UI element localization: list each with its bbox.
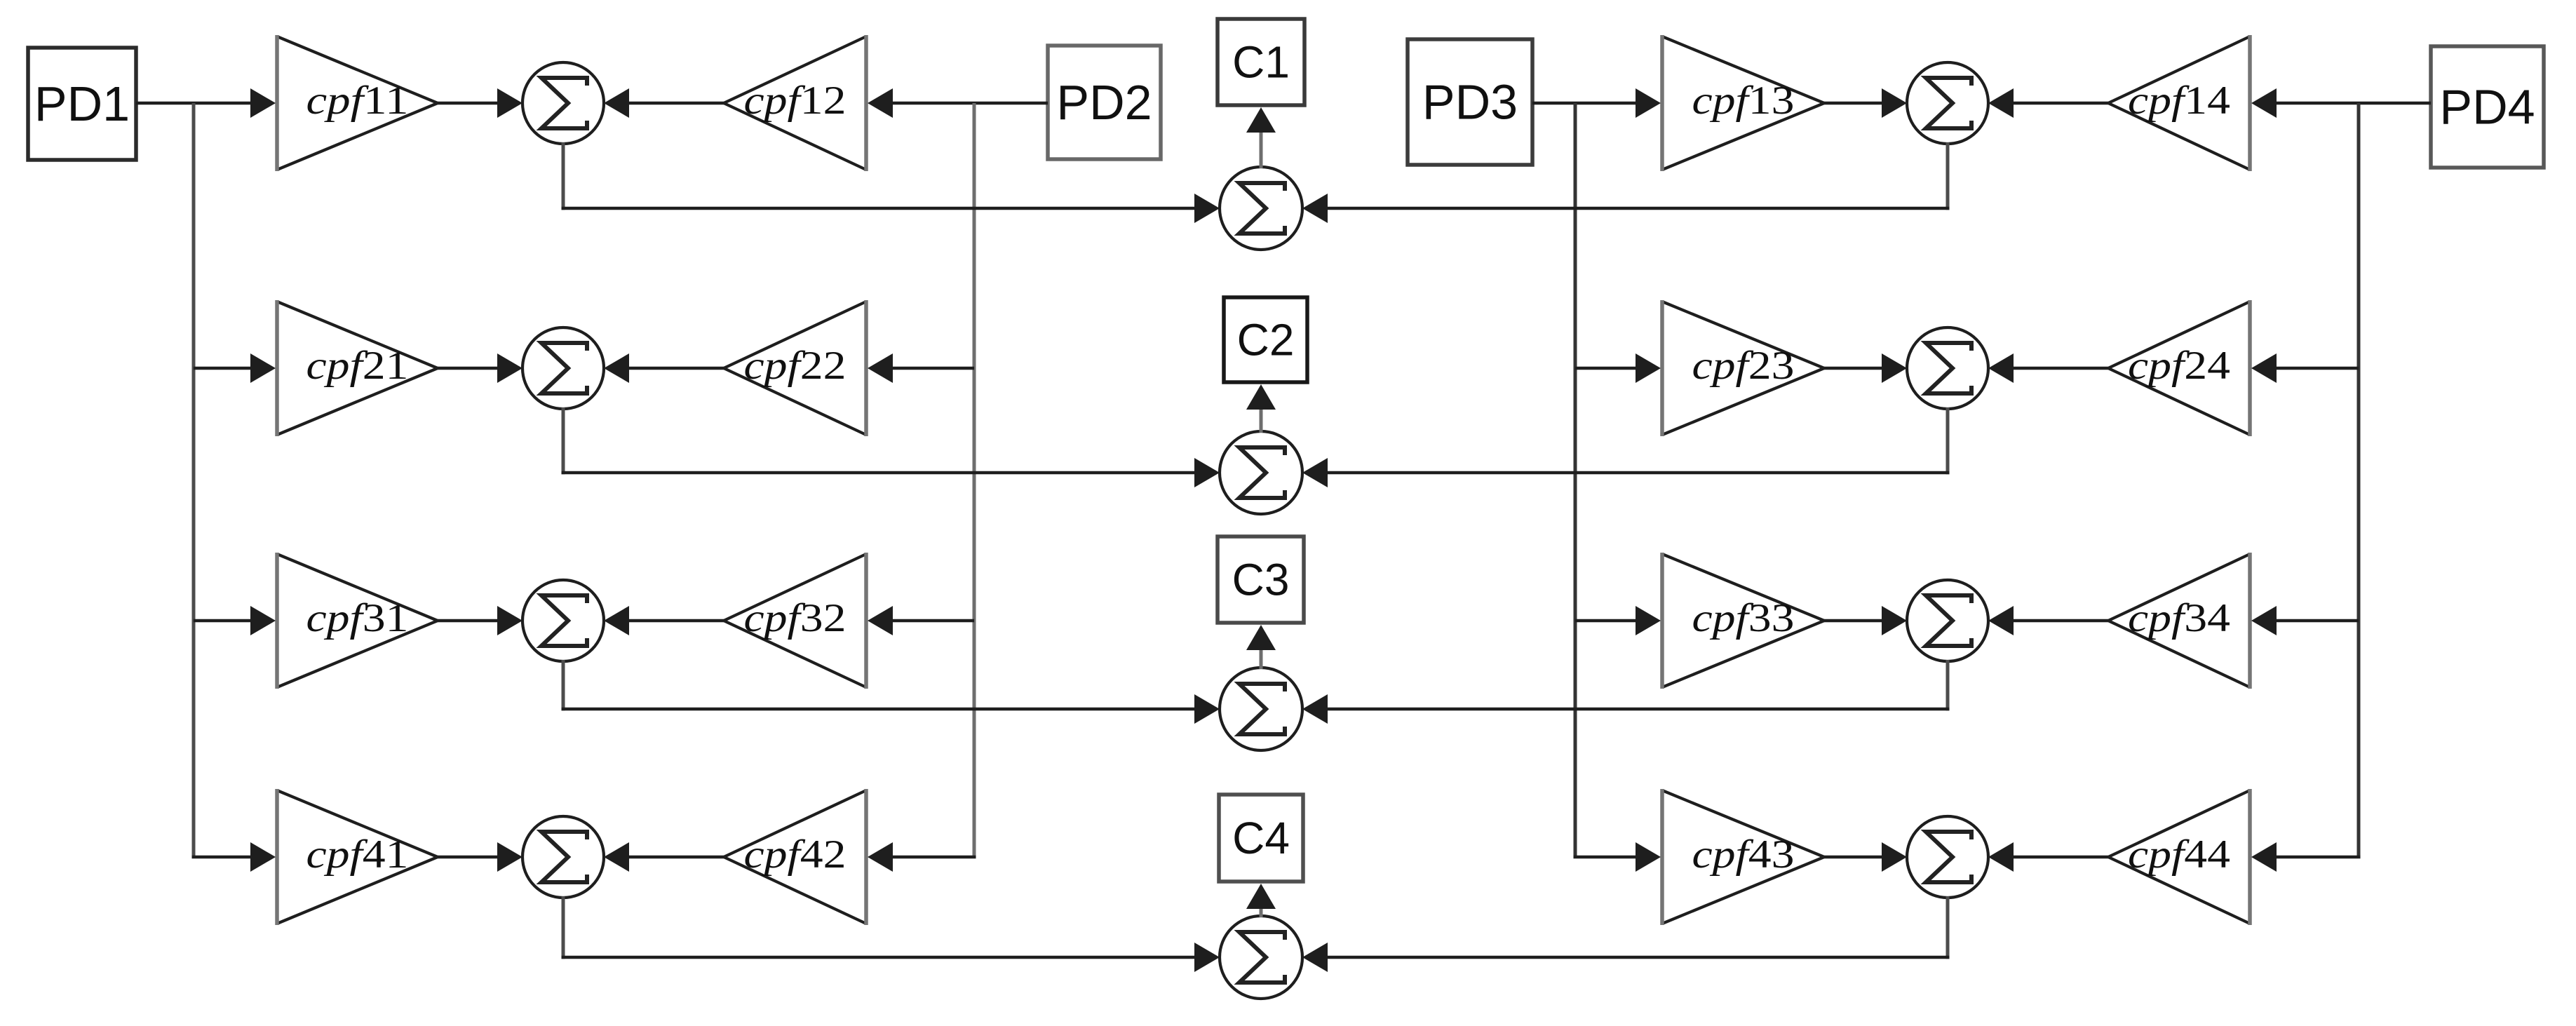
svg-text:C1: C1 (1232, 37, 1290, 88)
wire PD1 branch to cpf21 (194, 353, 276, 383)
wire PD2 branch to cpf32 (868, 606, 974, 635)
block PD4 (2431, 46, 2544, 168)
summer S4L (left sum row 4) (522, 816, 604, 898)
gain block cpf23 (1662, 300, 1824, 436)
block PD2 (1048, 46, 1161, 159)
gain block cpf13 (1662, 35, 1824, 171)
wire PD3 feeder vertical (1574, 103, 1577, 857)
gain block cpf12 (724, 35, 866, 171)
wire cpf44 to right sum (1988, 842, 2108, 872)
wire left sum row 1 to central sum 1 (562, 142, 1220, 223)
gain block cpf31 (277, 553, 438, 689)
svg-text:cpf41: cpf41 (306, 832, 409, 877)
summer S1L (left sum row 1) (522, 62, 604, 144)
svg-text:cpf43: cpf43 (1692, 832, 1795, 877)
wire central sum 4 to C4 (1246, 884, 1276, 917)
gain block cpf34 (2108, 553, 2250, 689)
svg-text:cpf44: cpf44 (2128, 832, 2230, 877)
gain block cpf22 (724, 300, 866, 436)
summer S4R (right sum row 4) (1907, 816, 1988, 898)
wire PD3 branch to cpf43 (1574, 842, 1661, 872)
svg-text:cpf31: cpf31 (306, 596, 409, 640)
gain block cpf42 (724, 789, 866, 925)
wire cpf43 to right sum (1824, 842, 1907, 872)
svg-text:PD3: PD3 (1422, 75, 1518, 130)
wire PD4 branch to cpf44 (2251, 842, 2361, 872)
wire PD2 to cpf12 (868, 88, 1048, 118)
wire PD1 to cpf11 (136, 88, 276, 118)
gain block cpf41 (277, 789, 438, 925)
gain block cpf33 (1662, 553, 1824, 689)
wire PD1 feeder vertical (192, 103, 196, 857)
wire PD3 branch to cpf33 (1575, 606, 1661, 635)
svg-text:cpf42: cpf42 (744, 832, 847, 877)
wire PD2 branch to cpf42 (868, 842, 976, 872)
svg-text:cpf33: cpf33 (1692, 596, 1795, 640)
wire PD4 feeder vertical (2357, 103, 2361, 857)
wire PD4 to cpf14 (2251, 88, 2431, 118)
wire cpf31 to left sum (438, 606, 522, 635)
svg-text:cpf24: cpf24 (2128, 344, 2230, 388)
svg-text:cpf22: cpf22 (744, 344, 847, 388)
wire right sum row 4 to central sum 4 (1302, 896, 1950, 972)
summer S4C (central sum for C4) (1220, 916, 1302, 999)
svg-text:C4: C4 (1232, 813, 1290, 863)
summer S2C (central sum for C2) (1220, 431, 1302, 514)
block C3 (1218, 536, 1304, 623)
svg-text:cpf34: cpf34 (2128, 596, 2230, 640)
gain block cpf43 (1662, 789, 1824, 925)
wire cpf32 to left sum (604, 606, 724, 635)
svg-text:PD1: PD1 (34, 76, 130, 131)
svg-text:cpf12: cpf12 (744, 79, 847, 123)
block PD1 (28, 48, 136, 160)
wire right sum row 1 to central sum 1 (1302, 142, 1950, 223)
wire cpf21 to left sum (438, 353, 522, 383)
svg-text:C3: C3 (1232, 555, 1290, 605)
svg-text:cpf13: cpf13 (1692, 79, 1795, 123)
svg-text:PD4: PD4 (2439, 80, 2535, 135)
wire right sum row 3 to central sum 3 (1302, 660, 1950, 724)
svg-text:cpf23: cpf23 (1692, 344, 1795, 388)
summer S3L (left sum row 3) (522, 580, 604, 661)
wire cpf24 to right sum (1988, 353, 2108, 383)
wire cpf34 to right sum (1988, 606, 2108, 635)
wire PD1 branch to cpf31 (194, 606, 276, 635)
wire PD4 branch to cpf34 (2251, 606, 2359, 635)
wire cpf12 to left sum (604, 88, 724, 118)
wire left sum row 3 to central sum 3 (562, 660, 1220, 724)
wire PD3 to cpf13 (1532, 88, 1661, 118)
wire PD2 feeder vertical (973, 103, 976, 857)
wire PD2 branch to cpf22 (868, 353, 974, 383)
wire cpf13 to right sum (1824, 88, 1907, 118)
gain block cpf24 (2108, 300, 2250, 436)
wire cpf11 to left sum (438, 88, 522, 118)
wire cpf42 to left sum (604, 842, 724, 872)
wire right sum row 2 to central sum 2 (1302, 407, 1950, 487)
summer S3C (central sum for C3) (1220, 668, 1302, 750)
wire PD1 branch to cpf41 (192, 842, 276, 872)
wire central sum 2 to C2 (1246, 384, 1276, 433)
gain block cpf21 (277, 300, 438, 436)
svg-text:PD2: PD2 (1056, 75, 1152, 130)
summer S2L (left sum row 2) (522, 328, 604, 409)
svg-text:cpf32: cpf32 (744, 596, 847, 640)
svg-text:C2: C2 (1237, 315, 1295, 365)
gain block cpf11 (277, 35, 438, 171)
block C2 (1224, 297, 1307, 382)
wire PD4 branch to cpf24 (2251, 353, 2359, 383)
gain block cpf44 (2108, 789, 2250, 925)
wire cpf22 to left sum (604, 353, 724, 383)
svg-text:cpf21: cpf21 (306, 344, 409, 388)
svg-text:cpf11: cpf11 (306, 79, 409, 123)
block PD3 (1408, 39, 1532, 165)
wire left sum row 4 to central sum 4 (562, 896, 1220, 972)
block C1 (1218, 19, 1304, 105)
wire central sum 3 to C3 (1246, 625, 1276, 669)
svg-text:cpf14: cpf14 (2128, 79, 2230, 123)
wire cpf23 to right sum (1824, 353, 1907, 383)
wire cpf41 to left sum (438, 842, 522, 872)
gain block cpf32 (724, 553, 866, 689)
summer S3R (right sum row 3) (1907, 580, 1988, 661)
summer S1R (right sum row 1) (1907, 62, 1988, 144)
wire left sum row 2 to central sum 2 (562, 407, 1220, 487)
wire PD3 branch to cpf23 (1575, 353, 1661, 383)
summer S2R (right sum row 2) (1907, 328, 1988, 409)
wire cpf33 to right sum (1824, 606, 1907, 635)
block C4 (1219, 795, 1303, 882)
wire cpf14 to right sum (1988, 88, 2108, 118)
wire central sum 1 to C1 (1246, 107, 1276, 168)
summer S1C (central sum for C1) (1220, 167, 1302, 250)
gain block cpf14 (2108, 35, 2250, 171)
